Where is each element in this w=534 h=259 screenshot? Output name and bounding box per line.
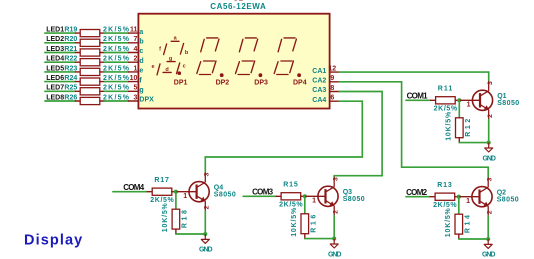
resistor R23 2K/5%	[64, 65, 129, 75]
wire net COM2	[406, 196, 430, 198]
display pin 11 (a)	[129, 27, 144, 36]
resistor R15 2K/5%	[276, 182, 305, 209]
svg-text:R15: R15	[283, 182, 298, 189]
svg-text:3: 3	[487, 177, 494, 181]
wire net LED7 to R25	[45, 90, 76, 92]
svg-text:c: c	[183, 64, 186, 70]
power symbol GND	[482, 239, 496, 259]
svg-text:6: 6	[330, 95, 334, 102]
svg-text:e: e	[139, 68, 143, 75]
transistor Q4 S8050	[176, 172, 236, 211]
display pin 12 (CA1)	[312, 66, 339, 75]
svg-text:1: 1	[466, 198, 470, 205]
svg-text:R16: R16	[310, 215, 317, 233]
wire CA3 to Q3 collector	[334, 92, 382, 177]
svg-text:CA1: CA1	[312, 68, 326, 75]
svg-text:3: 3	[204, 172, 211, 176]
svg-text:DP3: DP3	[254, 79, 268, 86]
display pin 1 (e)	[129, 65, 144, 74]
svg-text:R22: R22	[64, 56, 77, 63]
power symbol GND	[199, 234, 213, 254]
resistor R18 10K/5%	[162, 202, 189, 234]
svg-text:8: 8	[330, 85, 334, 92]
svg-text:R26: R26	[64, 94, 77, 101]
transistor Q2 S8050	[459, 177, 519, 216]
svg-text:LED8: LED8	[46, 94, 64, 101]
svg-text:R18: R18	[181, 210, 188, 228]
resistor R22 2K/5%	[64, 56, 129, 66]
svg-text:R19: R19	[64, 27, 77, 34]
svg-text:CA3: CA3	[312, 87, 326, 94]
wire COM1 junction down to R12	[458, 100, 460, 118]
junction node at Q1 base	[457, 98, 461, 102]
svg-text:R24: R24	[64, 75, 77, 82]
svg-text:10K/5%: 10K/5%	[445, 111, 452, 141]
svg-text:COM4: COM4	[123, 183, 145, 192]
svg-text:g: g	[139, 87, 143, 94]
svg-text:2K/5%: 2K/5%	[279, 202, 303, 209]
svg-text:10K/5%: 10K/5%	[291, 207, 298, 237]
svg-text:7: 7	[133, 36, 137, 43]
display pin 5 (g)	[129, 85, 144, 94]
display pin 10 (f)	[129, 75, 143, 84]
resistor R25 2K/5%	[64, 85, 129, 95]
svg-text:1: 1	[183, 193, 187, 200]
wire net COM3	[243, 195, 276, 197]
svg-text:DP1: DP1	[174, 79, 188, 86]
resistor R12 10K/5%	[445, 111, 472, 143]
resistor R20 2K/5%	[64, 36, 129, 46]
wire net COM4	[113, 191, 147, 193]
svg-text:R25: R25	[64, 85, 77, 92]
power symbol GND	[482, 143, 496, 163]
wire net LED1 to R19	[45, 32, 76, 34]
wire net LED5 to R23	[45, 71, 76, 73]
display pin 8 (CA3)	[312, 85, 339, 94]
svg-text:COM3: COM3	[252, 188, 274, 197]
junction node at GND	[332, 237, 336, 241]
wire CA1 to Q1 collector	[339, 72, 488, 81]
svg-text:LED3: LED3	[46, 46, 64, 53]
svg-text:1: 1	[133, 65, 137, 72]
svg-text:d: d	[139, 58, 143, 65]
resistor R13 2K/5%	[430, 182, 459, 209]
svg-text:g: g	[169, 56, 172, 62]
wire R22 to display pin d	[105, 61, 129, 63]
display pin 6 (CA4)	[312, 95, 339, 104]
power symbol GND	[328, 239, 342, 259]
transistor Q3 S8050	[305, 177, 365, 216]
resistor R19 2K/5%	[64, 27, 129, 37]
svg-text:5: 5	[133, 85, 137, 92]
junction node at GND	[487, 141, 491, 145]
segment letters a-g	[151, 36, 188, 73]
wire R24 to display pin f	[105, 81, 129, 83]
svg-text:COM1: COM1	[407, 92, 429, 101]
wire R19 to display pin a	[105, 32, 129, 34]
svg-text:3: 3	[487, 81, 494, 85]
svg-text:R13: R13	[437, 182, 452, 189]
transistor Q1 S8050	[459, 81, 519, 120]
wire COM2 junction down to R14	[458, 197, 460, 215]
wire R14 to GND junction	[459, 238, 488, 240]
svg-text:LED7: LED7	[46, 85, 64, 92]
resistor R11 2K/5%	[431, 86, 460, 113]
svg-text:LED1: LED1	[46, 27, 64, 34]
svg-text:LED5: LED5	[46, 65, 64, 72]
svg-text:R23: R23	[64, 65, 77, 72]
display pin 7 (b)	[129, 36, 144, 45]
svg-text:2K/5%: 2K/5%	[150, 197, 174, 204]
wire R18 to GND junction	[176, 233, 205, 235]
wire Q3 emitter to GND junction	[333, 216, 335, 239]
resistor R17 2K/5%	[147, 177, 176, 204]
wire Q4 emitter to GND junction	[204, 211, 206, 234]
svg-text:S8050: S8050	[497, 100, 519, 107]
svg-text:R14: R14	[464, 215, 471, 233]
svg-text:f: f	[159, 46, 161, 52]
svg-text:2: 2	[133, 56, 137, 63]
wire CA4 to Q4 collector	[205, 101, 362, 172]
svg-text:2K/5%: 2K/5%	[434, 106, 458, 113]
wire R25 to display pin g	[105, 90, 129, 92]
7-segment digit 2 graphic	[197, 38, 219, 75]
svg-text:b: b	[139, 39, 143, 46]
svg-text:2: 2	[487, 114, 494, 118]
svg-text:LED2: LED2	[46, 36, 64, 43]
svg-text:GND: GND	[328, 251, 342, 258]
wire Q1 emitter to GND junction	[488, 120, 490, 143]
svg-text:3: 3	[333, 177, 340, 181]
svg-text:e: e	[151, 64, 154, 70]
wire net COM1	[406, 99, 431, 101]
svg-text:LED4: LED4	[46, 56, 64, 63]
wire R26 to display pin DPX	[105, 100, 129, 102]
svg-text:1: 1	[467, 102, 471, 109]
junction node at Q2 base	[457, 195, 461, 199]
wire R21 to display pin c	[105, 52, 129, 54]
svg-text:S8050: S8050	[343, 196, 365, 203]
svg-text:CA2: CA2	[312, 78, 326, 85]
svg-text:CA4: CA4	[312, 97, 326, 104]
svg-text:DPX: DPX	[139, 97, 154, 104]
wire net LED4 to R22	[45, 61, 76, 63]
resistor R16 10K/5%	[291, 207, 318, 239]
junction node at GND	[486, 237, 490, 241]
svg-text:R20: R20	[64, 36, 77, 43]
resistor R21 2K/5%	[64, 46, 129, 56]
svg-text:COM2: COM2	[406, 188, 428, 197]
svg-text:11: 11	[130, 27, 138, 34]
display pin 2 (d)	[129, 56, 144, 65]
display pin 4 (c)	[129, 46, 144, 55]
display pin 3 (DPX)	[129, 94, 155, 103]
wire Q2 emitter to GND junction	[487, 216, 489, 239]
svg-text:DP2: DP2	[216, 79, 230, 86]
svg-text:CA56-12EWA: CA56-12EWA	[210, 2, 266, 11]
svg-text:R17: R17	[154, 177, 169, 184]
wire net LED6 to R24	[45, 81, 76, 83]
svg-text:2K/5%: 2K/5%	[433, 202, 457, 209]
svg-text:S8050: S8050	[214, 191, 236, 198]
7-segment digit 3 graphic	[236, 38, 258, 75]
svg-text:DP4: DP4	[293, 79, 307, 86]
display U2 CA56-12EWA body	[138, 14, 329, 109]
junction node at GND	[203, 232, 207, 236]
resistor R14 10K/5%	[445, 207, 472, 239]
wire net LED8 to R26	[45, 100, 76, 102]
svg-text:10K/5%: 10K/5%	[445, 207, 452, 237]
svg-text:R11: R11	[438, 86, 453, 93]
wire R12 to GND junction	[459, 142, 488, 144]
display pin 9 (CA2)	[312, 75, 339, 84]
svg-text:LED6: LED6	[46, 75, 64, 82]
svg-text:Display: Display	[24, 233, 83, 249]
svg-text:10K/5%: 10K/5%	[162, 202, 169, 232]
svg-text:1: 1	[312, 198, 316, 205]
svg-text:10: 10	[130, 75, 138, 82]
7-segment digit 1 graphic with segment letters	[157, 41, 184, 75]
7-segment digit 4 graphic	[274, 38, 296, 75]
wire COM4 junction down to R18	[175, 192, 177, 210]
svg-text:R12: R12	[465, 119, 472, 137]
junction node at Q4 base	[174, 190, 178, 194]
wire R20 to display pin b	[105, 42, 129, 44]
wire net LED3 to R21	[45, 52, 76, 54]
wire net LED2 to R20	[45, 42, 76, 44]
svg-text:9: 9	[330, 75, 334, 82]
resistor R26 2K/5%	[64, 94, 129, 104]
svg-text:GND: GND	[482, 252, 496, 259]
svg-text:4: 4	[133, 46, 137, 53]
svg-text:S8050: S8050	[497, 196, 519, 203]
resistor R24 2K/5%	[64, 75, 129, 85]
svg-text:2: 2	[487, 210, 494, 214]
svg-text:a: a	[139, 29, 143, 36]
wire R16 to GND junction	[305, 238, 334, 240]
svg-text:3: 3	[133, 94, 137, 101]
svg-text:R21: R21	[64, 46, 77, 53]
junction node at Q3 base	[303, 194, 307, 198]
svg-text:GND: GND	[482, 155, 496, 162]
wire COM3 junction down to R16	[304, 196, 306, 214]
svg-text:2: 2	[204, 205, 211, 209]
svg-text:GND: GND	[199, 247, 213, 254]
svg-text:c: c	[139, 48, 143, 55]
svg-text:2: 2	[333, 210, 340, 214]
wire CA2 to Q2 collector	[339, 82, 488, 178]
svg-text:d: d	[165, 67, 168, 73]
wire R23 to display pin e	[105, 71, 129, 73]
svg-text:12: 12	[328, 66, 336, 73]
